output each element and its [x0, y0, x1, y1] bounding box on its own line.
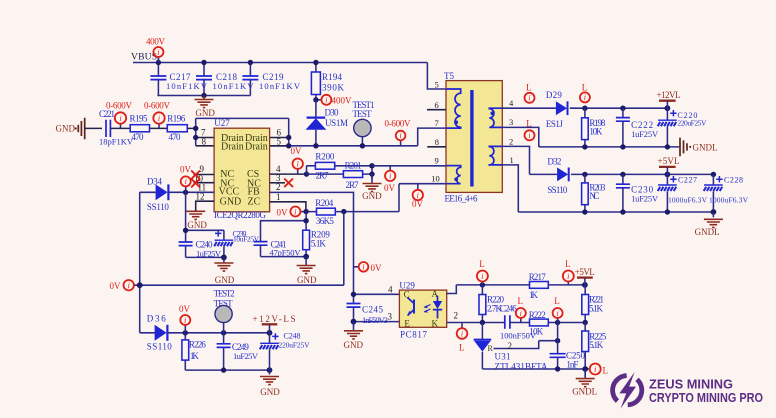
- svg-text:0V: 0V: [412, 199, 424, 209]
- svg-text:R204: R204: [315, 198, 334, 208]
- svg-text:400V: 400V: [146, 37, 166, 47]
- svg-text:+5VL: +5VL: [658, 156, 680, 166]
- svg-text:GND: GND: [215, 275, 235, 285]
- svg-text:i: i: [325, 96, 327, 105]
- svg-text:R196: R196: [167, 114, 186, 124]
- svg-text:i: i: [584, 93, 586, 102]
- svg-text:i: i: [556, 309, 558, 318]
- svg-text:0V: 0V: [180, 165, 192, 175]
- svg-text:i: i: [297, 160, 299, 169]
- svg-text:10: 10: [431, 174, 440, 184]
- svg-text:7: 7: [435, 118, 439, 128]
- svg-text:1uF25V: 1uF25V: [631, 129, 659, 139]
- svg-text:9: 9: [200, 164, 205, 174]
- svg-text:U31: U31: [495, 352, 511, 362]
- svg-text:D32: D32: [547, 157, 561, 167]
- svg-text:0V: 0V: [179, 304, 191, 314]
- svg-text:i: i: [528, 131, 530, 140]
- svg-text:18pF1KV: 18pF1KV: [99, 137, 134, 147]
- svg-text:0V: 0V: [110, 281, 122, 291]
- svg-text:SS110: SS110: [147, 342, 173, 352]
- svg-text:5.1K: 5.1K: [589, 340, 604, 350]
- svg-text:SS110: SS110: [147, 202, 170, 212]
- svg-text:Drain: Drain: [245, 142, 268, 153]
- svg-text:i: i: [119, 114, 121, 123]
- svg-text:0V: 0V: [384, 183, 396, 193]
- svg-text:1: 1: [510, 155, 514, 165]
- svg-text:L: L: [603, 366, 609, 376]
- svg-text:ES1J: ES1J: [546, 119, 563, 129]
- svg-text:R195: R195: [130, 114, 149, 124]
- svg-text:0-600V: 0-600V: [106, 101, 133, 111]
- svg-text:GND: GND: [362, 191, 382, 201]
- svg-text:C245: C245: [362, 305, 384, 315]
- svg-text:400V: 400V: [332, 96, 353, 106]
- svg-text:1000uF6.3V: 1000uF6.3V: [668, 195, 708, 204]
- svg-text:3: 3: [509, 117, 513, 127]
- svg-text:3: 3: [388, 312, 393, 322]
- svg-text:GNDL: GNDL: [693, 143, 718, 153]
- svg-text:1nF50V3: 1nF50V3: [362, 315, 388, 325]
- svg-text:i: i: [362, 263, 364, 272]
- svg-text:10nF1KV: 10nF1KV: [166, 81, 208, 91]
- svg-text:ZC: ZC: [248, 196, 261, 207]
- svg-text:i: i: [184, 316, 186, 325]
- svg-text:i: i: [157, 48, 159, 57]
- svg-text:i: i: [520, 309, 522, 318]
- svg-text:US1M: US1M: [325, 118, 348, 128]
- svg-text:8: 8: [435, 137, 439, 147]
- svg-text:9: 9: [435, 156, 439, 166]
- svg-text:R: R: [488, 344, 494, 353]
- svg-text:Drain: Drain: [221, 142, 244, 153]
- svg-text:i: i: [528, 94, 530, 103]
- svg-text:L: L: [479, 259, 485, 269]
- svg-text:GND: GND: [187, 220, 207, 230]
- svg-text:T5: T5: [444, 71, 454, 81]
- svg-text:0V: 0V: [291, 146, 303, 156]
- svg-text:i: i: [294, 207, 296, 216]
- svg-text:EE16_4+6: EE16_4+6: [445, 194, 479, 204]
- svg-text:220uF25V: 220uF25V: [279, 341, 311, 350]
- svg-text:2R7: 2R7: [316, 171, 330, 181]
- svg-text:R201: R201: [345, 161, 362, 171]
- svg-text:10nF1KV: 10nF1KV: [259, 81, 301, 91]
- svg-text:C228: C228: [724, 176, 743, 185]
- svg-text:GND: GND: [297, 275, 317, 285]
- svg-text:10nF1KV: 10nF1KV: [213, 81, 255, 91]
- svg-text:D29: D29: [546, 90, 563, 100]
- svg-text:8: 8: [202, 137, 207, 147]
- svg-text:1uF25V: 1uF25V: [631, 194, 659, 204]
- svg-text:L: L: [526, 118, 532, 128]
- svg-text:5.1K: 5.1K: [311, 238, 327, 248]
- svg-text:ICE2QR2280G: ICE2QR2280G: [214, 210, 267, 220]
- svg-text:i: i: [481, 272, 483, 281]
- svg-text:L: L: [554, 296, 560, 306]
- svg-text:5: 5: [435, 79, 439, 89]
- svg-text:L: L: [582, 83, 588, 93]
- svg-text:K: K: [432, 319, 439, 329]
- svg-text:1000uF6.3V: 1000uF6.3V: [709, 195, 749, 204]
- svg-text:10K: 10K: [589, 127, 603, 137]
- svg-text:1uF25V: 1uF25V: [196, 249, 222, 259]
- svg-text:GND: GND: [344, 340, 364, 350]
- svg-text:0V: 0V: [277, 207, 289, 217]
- svg-text:NC: NC: [589, 191, 599, 201]
- svg-text:1K: 1K: [190, 351, 200, 361]
- svg-text:5.1K: 5.1K: [589, 303, 604, 313]
- svg-text:D34: D34: [147, 177, 163, 187]
- svg-text:D30: D30: [325, 108, 340, 118]
- svg-text:TEST: TEST: [353, 109, 373, 119]
- svg-text:C246: C246: [500, 304, 518, 314]
- svg-text:220uF25V: 220uF25V: [677, 118, 707, 127]
- svg-text:5: 5: [277, 137, 282, 147]
- svg-text:0-600V: 0-600V: [144, 101, 171, 111]
- svg-text:i: i: [399, 131, 401, 140]
- svg-text:i: i: [389, 172, 391, 181]
- svg-text:2R7: 2R7: [346, 180, 360, 190]
- svg-text:R194: R194: [322, 72, 343, 82]
- svg-text:i: i: [567, 272, 569, 281]
- svg-text:2: 2: [276, 182, 281, 192]
- svg-text:R222: R222: [529, 310, 546, 320]
- svg-text:470: 470: [132, 132, 145, 142]
- svg-text:6: 6: [435, 100, 439, 110]
- svg-text:L: L: [565, 259, 571, 269]
- svg-text:2: 2: [508, 341, 513, 351]
- svg-text:2: 2: [509, 136, 513, 146]
- svg-text:1K: 1K: [529, 290, 539, 300]
- svg-text:i: i: [185, 177, 187, 186]
- svg-text:CRYPTO MINING PRO: CRYPTO MINING PRO: [649, 390, 763, 405]
- svg-text:i: i: [158, 114, 160, 123]
- svg-text:1nF: 1nF: [566, 359, 578, 369]
- svg-text:2: 2: [454, 311, 459, 321]
- svg-text:D36: D36: [147, 314, 167, 324]
- svg-text:0V: 0V: [371, 263, 383, 273]
- svg-text:1uF25V: 1uF25V: [233, 351, 259, 361]
- svg-text:36K5: 36K5: [316, 216, 335, 226]
- svg-text:L: L: [518, 296, 524, 306]
- svg-text:C221: C221: [99, 109, 115, 119]
- svg-text:470: 470: [169, 132, 182, 142]
- svg-text:L: L: [526, 83, 532, 93]
- svg-text:U27: U27: [214, 118, 230, 128]
- svg-text:i: i: [461, 329, 463, 338]
- svg-text:E: E: [404, 319, 410, 329]
- svg-text:GNDL: GNDL: [572, 387, 597, 397]
- svg-text:+12VL: +12VL: [657, 90, 681, 100]
- svg-text:GND: GND: [220, 196, 242, 207]
- svg-text:4: 4: [388, 285, 393, 295]
- svg-text:PC817: PC817: [400, 330, 428, 340]
- svg-text:47pF50V: 47pF50V: [270, 248, 302, 258]
- svg-text:1: 1: [276, 192, 281, 202]
- svg-text:0-600V: 0-600V: [385, 118, 412, 128]
- svg-text:R226: R226: [189, 340, 207, 350]
- svg-text:GND: GND: [260, 387, 280, 397]
- svg-text:C248: C248: [284, 332, 301, 341]
- svg-text:R217: R217: [529, 272, 547, 282]
- svg-text:i: i: [594, 365, 596, 374]
- svg-text:GND: GND: [56, 124, 76, 134]
- svg-text:390K: 390K: [322, 83, 345, 93]
- svg-text:R200: R200: [315, 151, 335, 161]
- svg-text:C227: C227: [678, 176, 697, 185]
- svg-text:L: L: [459, 343, 465, 353]
- svg-text:10K: 10K: [529, 327, 544, 337]
- svg-text:i: i: [128, 281, 130, 290]
- svg-text:+5VL: +5VL: [575, 267, 595, 277]
- svg-text:TEST2: TEST2: [214, 288, 235, 298]
- svg-text:ZTL431BFTA: ZTL431BFTA: [495, 361, 549, 371]
- svg-text:GND: GND: [195, 108, 215, 118]
- svg-text:GNDL: GNDL: [695, 227, 720, 237]
- svg-text:SS110: SS110: [547, 185, 568, 195]
